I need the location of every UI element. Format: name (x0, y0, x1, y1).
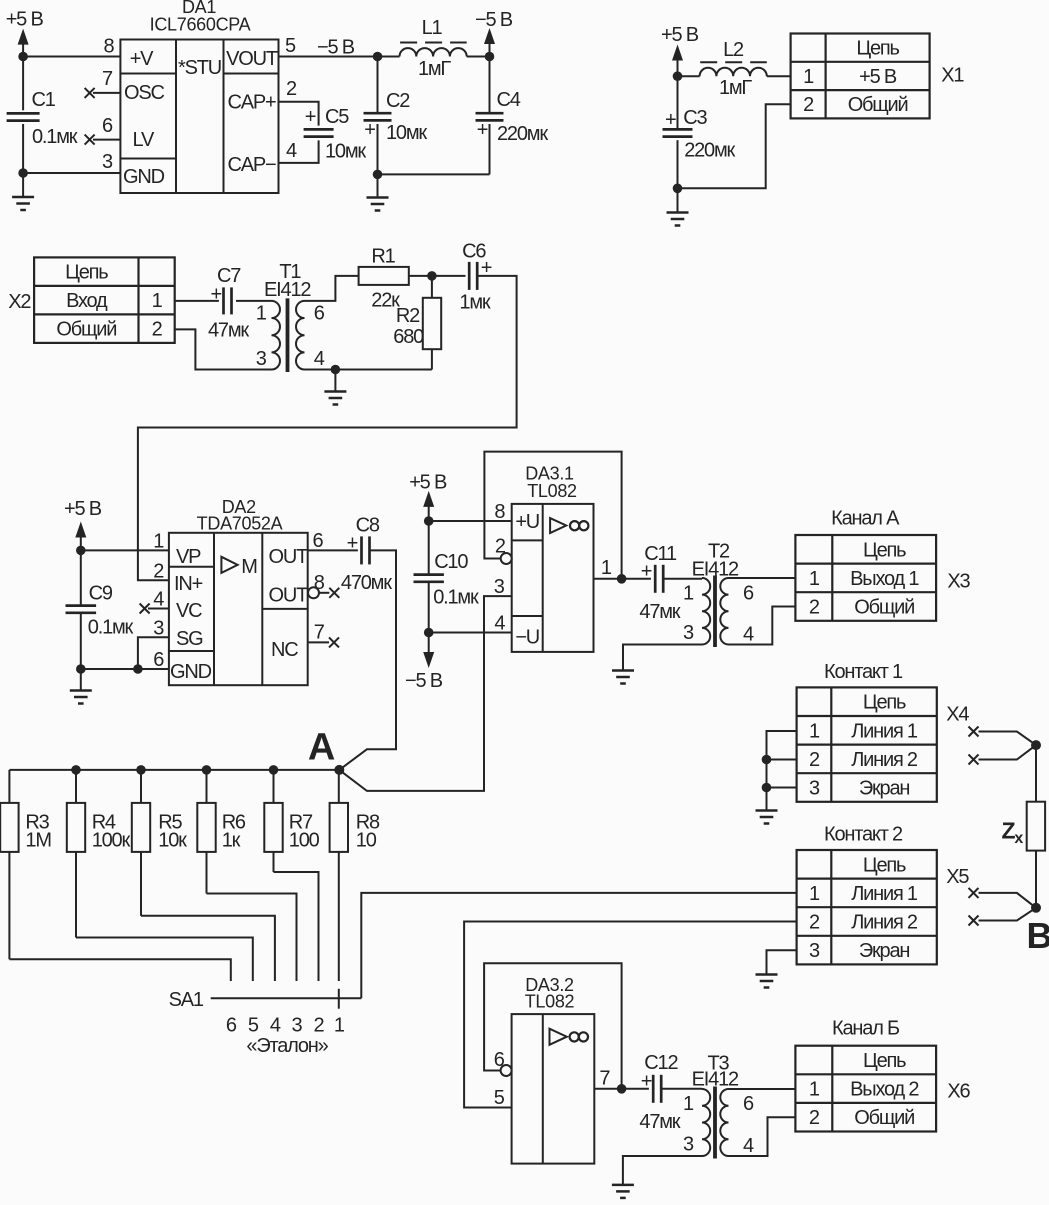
svg-text:2: 2 (809, 1107, 820, 1129)
svg-text:Общий: Общий (854, 1107, 914, 1129)
svg-text:C10: C10 (434, 551, 468, 573)
svg-text:OSC: OSC (124, 82, 164, 104)
ground (T3 primary) (612, 1184, 634, 1187)
capacitor C4 220мк (489, 57, 491, 114)
wire DA2 SG pin 3 down to GND net (138, 637, 169, 669)
svg-text:2: 2 (495, 536, 506, 558)
svg-text:220мк: 220мк (497, 123, 548, 145)
svg-text:Канал А: Канал А (831, 507, 900, 529)
svg-text:6: 6 (314, 303, 325, 325)
svg-text:1мк: 1мк (459, 292, 490, 314)
svg-text:X1: X1 (941, 64, 964, 86)
pin 7 output wire (594, 1088, 649, 1090)
wire C1 bottom to DA1 GND pin 3 (23, 172, 120, 174)
svg-text:5: 5 (494, 1087, 505, 1109)
svg-text:Цепь: Цепь (863, 539, 906, 561)
wire X1 pin 2 to C3 bottom (678, 104, 791, 188)
svg-text:+: + (665, 109, 676, 131)
svg-text:OUT: OUT (269, 585, 309, 607)
wire R6 to SA1 contact 3 (207, 894, 297, 982)
SA1 selected-contact tick (position 1) (338, 989, 340, 1009)
svg-text:1: 1 (809, 1079, 820, 1101)
wire C7 to T1 pin 1 (236, 300, 272, 302)
svg-text:3: 3 (494, 576, 505, 598)
wire C12 to T3 pin 1 (661, 1088, 702, 1090)
pin 6 stub + no-connect X (DA1 LV) (93, 139, 120, 141)
resistor R8 10 (338, 770, 340, 803)
ground (T2 primary) (612, 669, 634, 672)
svg-text:GND: GND (170, 661, 212, 683)
node: C1 bottom junction (18, 168, 28, 178)
X4 mating contact 1 (cross) (969, 727, 979, 737)
svg-text:6: 6 (153, 649, 164, 671)
node: bus tap R4 (71, 765, 81, 775)
node: +5V / L2 / C3 junction (673, 71, 683, 81)
wire R1 to C6 (409, 275, 466, 277)
svg-text:*STU: *STU (178, 57, 221, 79)
amp triangle + M inside DA2 (221, 557, 237, 573)
node: T1 pin 4 / ground junction (331, 365, 341, 375)
wire L2 to X1 pin 1 (767, 75, 791, 77)
resistor R2 680 (431, 276, 433, 298)
capacitor C11 47мк (polarized) (654, 565, 657, 593)
svg-text:1: 1 (256, 303, 267, 325)
inductor L2 1мГ (678, 75, 700, 77)
capacitor C7 47мк (polarized) (222, 287, 225, 314)
svg-text:«Эталон»: «Эталон» (246, 1035, 328, 1057)
svg-text:+: + (641, 1070, 652, 1092)
svg-text:C1: C1 (32, 89, 56, 111)
svg-text:1: 1 (809, 720, 820, 742)
svg-text:C7: C7 (217, 265, 241, 287)
node: DA3.2 output junction (617, 1084, 627, 1094)
wire X4 pins 1-2-3 common tie (767, 731, 797, 811)
ground (T1 secondary) (334, 370, 336, 392)
svg-text:ICL7660CPA: ICL7660CPA (150, 15, 251, 35)
svg-text:3: 3 (292, 1015, 303, 1037)
node: DA3.1 output junction (617, 574, 627, 584)
node: R1 / R2 / C6 junction (427, 271, 437, 281)
svg-text:8: 8 (494, 501, 505, 523)
wire to DA3.1 -U pin 4 (429, 632, 512, 634)
svg-text:VP: VP (176, 546, 201, 568)
svg-text:+: + (477, 119, 488, 141)
inductor L1 1мГ (378, 56, 400, 58)
node: SG/GND tie junction (133, 664, 143, 674)
ground (X4 shield) (756, 809, 778, 812)
X4 mating contact 2 (cross) (969, 755, 979, 765)
ground (C2/C4) (377, 174, 379, 197)
svg-text:3: 3 (809, 778, 820, 800)
svg-text:1мГ: 1мГ (719, 77, 752, 99)
resistor R1 22к (359, 267, 409, 285)
svg-text:220мк: 220мк (684, 140, 735, 162)
svg-text:1: 1 (803, 66, 814, 88)
svg-text:X4: X4 (946, 704, 969, 726)
svg-text:1: 1 (152, 290, 163, 312)
svg-text:−5 В: −5 В (405, 670, 443, 692)
svg-text:7: 7 (599, 1068, 610, 1090)
svg-text:6: 6 (743, 583, 754, 605)
transformer T1 EI412 (272, 301, 281, 370)
svg-text:L1: L1 (422, 17, 443, 39)
svg-text:47мк: 47мк (639, 601, 680, 623)
svg-text:+: + (305, 106, 316, 128)
wire C4 bottom to C2 bottom (378, 173, 490, 175)
pin 3 wire down to node A (lower branch) (339, 596, 511, 791)
svg-text:LV: LV (133, 129, 155, 151)
svg-text:4: 4 (270, 1015, 281, 1037)
svg-text:3: 3 (683, 622, 694, 644)
svg-text:Цепь: Цепь (856, 38, 899, 60)
svg-text:Цепь: Цепь (65, 262, 108, 284)
capacitor C12 47мк (polarized) (652, 1075, 655, 1103)
node: bus tap R5 (136, 765, 146, 775)
node: X4 pin3 tie (762, 783, 772, 793)
wire X2 pin 1 to C7 (175, 300, 219, 302)
capacitor C6 1мк (polarized) (468, 262, 471, 290)
amp triangle + infinity inside DA3.1 (550, 518, 566, 533)
svg-text:3: 3 (809, 940, 820, 962)
svg-text:Цепь: Цепь (863, 692, 906, 714)
capacitor C1 0.1мк (22, 57, 24, 111)
node: +5V / C10 top / DA3.1 pin 8 junction (424, 516, 434, 526)
node: C10 bottom / DA3.1 pin 4 junction (424, 628, 434, 638)
svg-text:47мк: 47мк (639, 1111, 680, 1133)
wire C6 to DA2 IN+ (pin 2) (138, 276, 517, 580)
wire R8 to SA1 contact 1 (338, 852, 340, 981)
svg-text:10: 10 (356, 829, 377, 851)
svg-text:+U: +U (515, 511, 539, 533)
svg-text:6: 6 (743, 1093, 754, 1115)
ground (C9) (80, 669, 82, 691)
svg-text:0.1мк: 0.1мк (433, 587, 479, 609)
pin 7 NC stub + no-connect X (308, 641, 329, 643)
wire T3 pin 6 to X6 pin 1 (729, 1088, 796, 1090)
wire X6 pin 2 to T3 pin 4 (729, 1117, 796, 1156)
svg-text:SG: SG (176, 628, 203, 650)
wire C8 to node A (upper branch) (339, 550, 396, 770)
svg-text:4: 4 (286, 140, 297, 162)
pin 4 stub + no-connect X (DA2 VC) (148, 608, 169, 610)
node: X4 pin2 tie (762, 755, 772, 765)
svg-text:2: 2 (803, 94, 814, 116)
svg-text:3: 3 (256, 348, 267, 370)
wire T2 pin 6 to X3 pin 1 (729, 577, 796, 579)
transformer T3 EI412 (702, 1089, 710, 1156)
svg-text:OUT: OUT (269, 546, 309, 568)
svg-text:Линия 2: Линия 2 (851, 912, 918, 934)
svg-text:4: 4 (743, 1135, 754, 1157)
pin 2 bubble (DA3.1 inverting input) (501, 553, 512, 564)
ground (X5 shield) (756, 973, 778, 976)
svg-text:Экран: Экран (859, 778, 910, 800)
svg-text:4: 4 (494, 613, 505, 635)
svg-text:Линия 1: Линия 1 (851, 883, 918, 905)
wire X5 pin 3 to ground (767, 950, 797, 974)
svg-text:5: 5 (248, 1015, 259, 1037)
resistor R5 10к (140, 770, 142, 803)
op-amp/IC DA1 ICL7660CPA body (120, 40, 278, 194)
svg-text:1мГ: 1мГ (418, 58, 451, 80)
svg-text:+: + (641, 560, 652, 582)
svg-text:R1: R1 (371, 246, 395, 268)
svg-text:−5 В: −5 В (475, 9, 513, 31)
svg-text:4: 4 (153, 589, 164, 611)
pin 7 stub + no-connect X (DA1 OSC) (93, 92, 120, 94)
svg-text:3: 3 (683, 1134, 694, 1156)
wire T3 pin 3 to ground (623, 1156, 702, 1185)
wire R3 to SA1 contact 6 (9, 959, 230, 981)
svg-text:470мк: 470мк (341, 572, 392, 594)
ground (C1) (22, 173, 24, 197)
svg-text:47мк: 47мк (208, 320, 249, 342)
svg-text:Контакт 1: Контакт 1 (824, 661, 903, 683)
svg-text:1: 1 (683, 583, 694, 605)
svg-text:NC: NC (271, 639, 298, 661)
svg-text:2: 2 (286, 78, 297, 100)
svg-text:Вход: Вход (66, 290, 108, 312)
wire SA1 wiper to X5 line 1 (361, 893, 796, 998)
svg-text:+5 В: +5 В (64, 498, 102, 520)
svg-text:X5: X5 (946, 866, 969, 888)
svg-text:6: 6 (494, 1049, 505, 1071)
svg-text:Общий: Общий (854, 597, 914, 619)
svg-text:7: 7 (102, 68, 113, 90)
pin 8 OUT bubble + no-connect X (308, 587, 319, 598)
svg-text:Линия 1: Линия 1 (851, 720, 918, 742)
svg-text:1к: 1к (222, 829, 241, 851)
node A junction dot (334, 765, 344, 775)
op-amp DA3.1 TL082 body (512, 504, 594, 652)
svg-text:2: 2 (809, 597, 820, 619)
pin 5 wire to X5 line 2 (464, 922, 796, 1108)
svg-text:CAP+: CAP+ (227, 92, 276, 114)
svg-text:+5 В: +5 В (859, 66, 897, 88)
capacitor C9 0.1мк (80, 550, 82, 605)
svg-text:+: + (364, 119, 375, 141)
svg-text:6: 6 (226, 1015, 237, 1037)
svg-text:8: 8 (104, 35, 115, 57)
svg-text:100: 100 (289, 829, 320, 851)
node: C9 bottom junction (76, 664, 86, 674)
svg-text:Выход 1: Выход 1 (850, 568, 919, 590)
node: C2 bottom / ground junction (373, 170, 383, 180)
svg-text:3: 3 (102, 151, 113, 173)
wire T2 pin 3 to ground (623, 645, 702, 671)
wire R5 to SA1 contact 4 (141, 916, 275, 981)
svg-text:X2: X2 (8, 291, 31, 313)
svg-text:TL082: TL082 (525, 992, 575, 1012)
svg-text:3: 3 (153, 618, 164, 640)
pin 1 output wire (594, 578, 651, 580)
pin 2 / pin 4 loop with C5 (279, 102, 319, 126)
feedback wire output to pin 2 (484, 452, 621, 579)
X5 mating contact 1 (cross) (969, 888, 979, 898)
svg-text:CAP−: CAP− (227, 154, 276, 176)
X5 mating contact 2 (cross) (969, 916, 979, 926)
svg-text:EI412: EI412 (692, 1069, 739, 1091)
node: +5V / C1 top junction (18, 52, 28, 62)
capacitor C8 470мк (polarized) (360, 536, 363, 564)
svg-text:−5 В: −5 В (317, 36, 355, 58)
svg-text:C4: C4 (497, 89, 521, 111)
net -5 В (power flag below C10) (423, 652, 434, 668)
svg-text:+: + (347, 532, 358, 554)
svg-text:Общий: Общий (848, 94, 908, 116)
connector X2 table (34, 257, 175, 343)
node: C3 bottom junction (673, 184, 683, 194)
node: measured object top (1031, 740, 1041, 750)
svg-text:C8: C8 (356, 515, 380, 537)
pin 6 OUT wire to C8 (308, 549, 358, 551)
svg-text:4: 4 (314, 348, 325, 370)
wire R7 to SA1 contact 2 (274, 872, 319, 981)
svg-text:TL082: TL082 (527, 481, 577, 501)
svg-text:1: 1 (153, 531, 164, 553)
pin 6 bubble (DA3.2 inverting input) (501, 1065, 512, 1076)
wire X2 pin 2 to T1 pin 3 (175, 329, 272, 369)
svg-text:Цепь: Цепь (863, 1050, 906, 1072)
capacitor C3 220мк (677, 76, 679, 129)
svg-text:M: M (241, 556, 257, 578)
svg-text:VOUT: VOUT (226, 48, 278, 70)
svg-text:+5 В: +5 В (409, 472, 447, 494)
svg-text:TDA7052A: TDA7052A (197, 514, 283, 534)
svg-text:2: 2 (809, 912, 820, 934)
ground (C3) (677, 188, 679, 212)
svg-text:L2: L2 (723, 39, 744, 61)
svg-text:R2: R2 (396, 305, 420, 327)
wire +5V to DA1 pin 8 (23, 56, 120, 58)
svg-text:1: 1 (601, 557, 612, 579)
svg-text:7: 7 (314, 622, 325, 644)
svg-text:X6: X6 (947, 1081, 970, 1103)
wire X3 pin 2 to T2 pin 4 (729, 607, 796, 645)
op-amp DA3.2 TL082 body (512, 1014, 595, 1164)
svg-text:Линия 2: Линия 2 (851, 749, 918, 771)
svg-text:4: 4 (743, 624, 754, 646)
svg-text:2: 2 (809, 749, 820, 771)
svg-text:10мк: 10мк (325, 141, 366, 163)
svg-text:6: 6 (313, 530, 324, 552)
svg-text:2: 2 (153, 561, 164, 583)
pin 5 VOUT wire to -5V node (279, 56, 378, 58)
svg-text:1: 1 (809, 568, 820, 590)
svg-text:10мк: 10мк (386, 122, 427, 144)
capacitor C5 10мк (polarized) (304, 128, 334, 131)
resistor R3 1М (8, 770, 10, 803)
wire C11 to T2 pin 1 (663, 578, 702, 580)
svg-text:2: 2 (314, 1015, 325, 1037)
wire T1 pin 4 to R2 bottom (305, 369, 432, 371)
svg-text:680: 680 (393, 326, 424, 348)
connector X1 table (791, 34, 930, 119)
svg-text:Цепь: Цепь (863, 854, 906, 876)
svg-text:Экран: Экран (859, 940, 910, 962)
svg-text:C9: C9 (89, 582, 113, 604)
svg-text:Канал Б: Канал Б (832, 1017, 900, 1039)
node: VOUT / C2 / L1 junction (373, 52, 383, 62)
svg-text:C5: C5 (325, 106, 349, 128)
svg-text:VC: VC (176, 600, 202, 622)
wire R4 to SA1 contact 5 (76, 938, 253, 982)
transformer T2 EI412 (702, 578, 710, 645)
wire C9 bottom to DA2 GND pin 6 (81, 668, 169, 670)
svg-text:+V: +V (130, 48, 154, 70)
wire to DA3.1 +U pin 8 (429, 520, 512, 522)
svg-text:Общий: Общий (56, 319, 116, 341)
resistor R6 1к (206, 770, 208, 803)
wire reference bus (node A rail) (9, 769, 339, 771)
svg-text:0.1мк: 0.1мк (88, 617, 134, 639)
svg-text:Контакт 2: Контакт 2 (824, 823, 903, 845)
capacitor C10 0.1мк (428, 521, 430, 575)
node: measured object bottom (node B) (1031, 903, 1041, 913)
node: L1 / C4 / -5V junction (485, 52, 495, 62)
op-amp/IC DA2 TDA7052A body (169, 533, 308, 685)
svg-text:Выход 2: Выход 2 (850, 1079, 919, 1101)
svg-text:C3: C3 (683, 107, 707, 129)
capacitor C2 10мк (377, 57, 379, 114)
wire T1 pin 6 to R1 (305, 276, 359, 301)
svg-text:1: 1 (809, 883, 820, 905)
svg-text:10к: 10к (158, 829, 187, 851)
node: +5V / C9 junction (76, 546, 86, 556)
amp triangle + infinity inside DA3.2 (550, 1029, 567, 1045)
net -5 В (power flag above C4) (484, 28, 495, 44)
svg-text:EI412: EI412 (264, 279, 311, 301)
wire +5V to DA2 VP pin 1 (81, 549, 169, 551)
svg-text:IN+: IN+ (174, 573, 203, 595)
svg-text:А: А (308, 727, 335, 769)
svg-text:+5 В: +5 В (661, 24, 699, 46)
svg-text:+5 В: +5 В (6, 9, 44, 31)
svg-text:1: 1 (334, 1015, 345, 1037)
svg-text:0.1мк: 0.1мк (32, 126, 78, 148)
svg-text:SA1: SA1 (169, 989, 204, 1011)
svg-text:C2: C2 (386, 90, 410, 112)
node: bus tap R6 (202, 765, 212, 775)
svg-text:5: 5 (285, 35, 296, 57)
svg-text:GND: GND (123, 166, 165, 188)
resistor R7 100 (273, 770, 275, 803)
switch SA1 wiper line (211, 997, 362, 999)
svg-text:X3: X3 (947, 571, 970, 593)
svg-text:−U: −U (515, 627, 539, 649)
impedance Zx (device under test) (1035, 745, 1037, 802)
svg-text:100к: 100к (92, 829, 131, 851)
svg-text:1М: 1М (25, 829, 51, 851)
node: bus tap R7 (269, 765, 279, 775)
svg-text:6: 6 (102, 115, 113, 137)
feedback wire output to pin 6 (484, 963, 621, 1089)
resistor R4 100к (75, 770, 77, 803)
svg-text:2: 2 (152, 319, 163, 341)
svg-text:8: 8 (314, 572, 325, 594)
svg-text:1: 1 (683, 1093, 694, 1115)
svg-text:В: В (1027, 915, 1049, 956)
